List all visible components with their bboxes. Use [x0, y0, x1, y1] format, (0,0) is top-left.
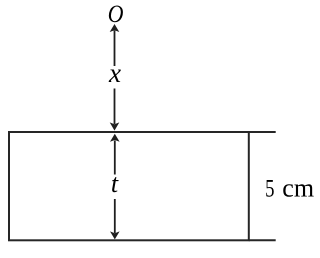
- dimension arrow t: lower shaft segment: [114, 199, 116, 233]
- svg-text:x: x: [108, 58, 121, 88]
- dimension arrow x: lower shaft segment: [114, 89, 116, 125]
- slab rectangle: [9, 132, 249, 240]
- svg-text:5: 5: [265, 174, 274, 202]
- bottom edge extension line: [249, 239, 276, 241]
- dimension arrow x: upper shaft segment: [114, 31, 116, 67]
- svg-text:cm: cm: [282, 173, 314, 202]
- dimension arrow x: lower arrowhead: [110, 122, 120, 130]
- dimension arrow t: upper shaft segment: [114, 141, 116, 175]
- dimension arrow x: upper arrowhead: [110, 24, 120, 32]
- top edge extension line: [249, 131, 276, 133]
- dimension arrow t: upper arrowhead: [110, 134, 120, 142]
- svg-text:t: t: [111, 169, 119, 198]
- svg-text:O: O: [108, 1, 124, 29]
- dimension arrow t: lower arrowhead: [110, 231, 120, 239]
